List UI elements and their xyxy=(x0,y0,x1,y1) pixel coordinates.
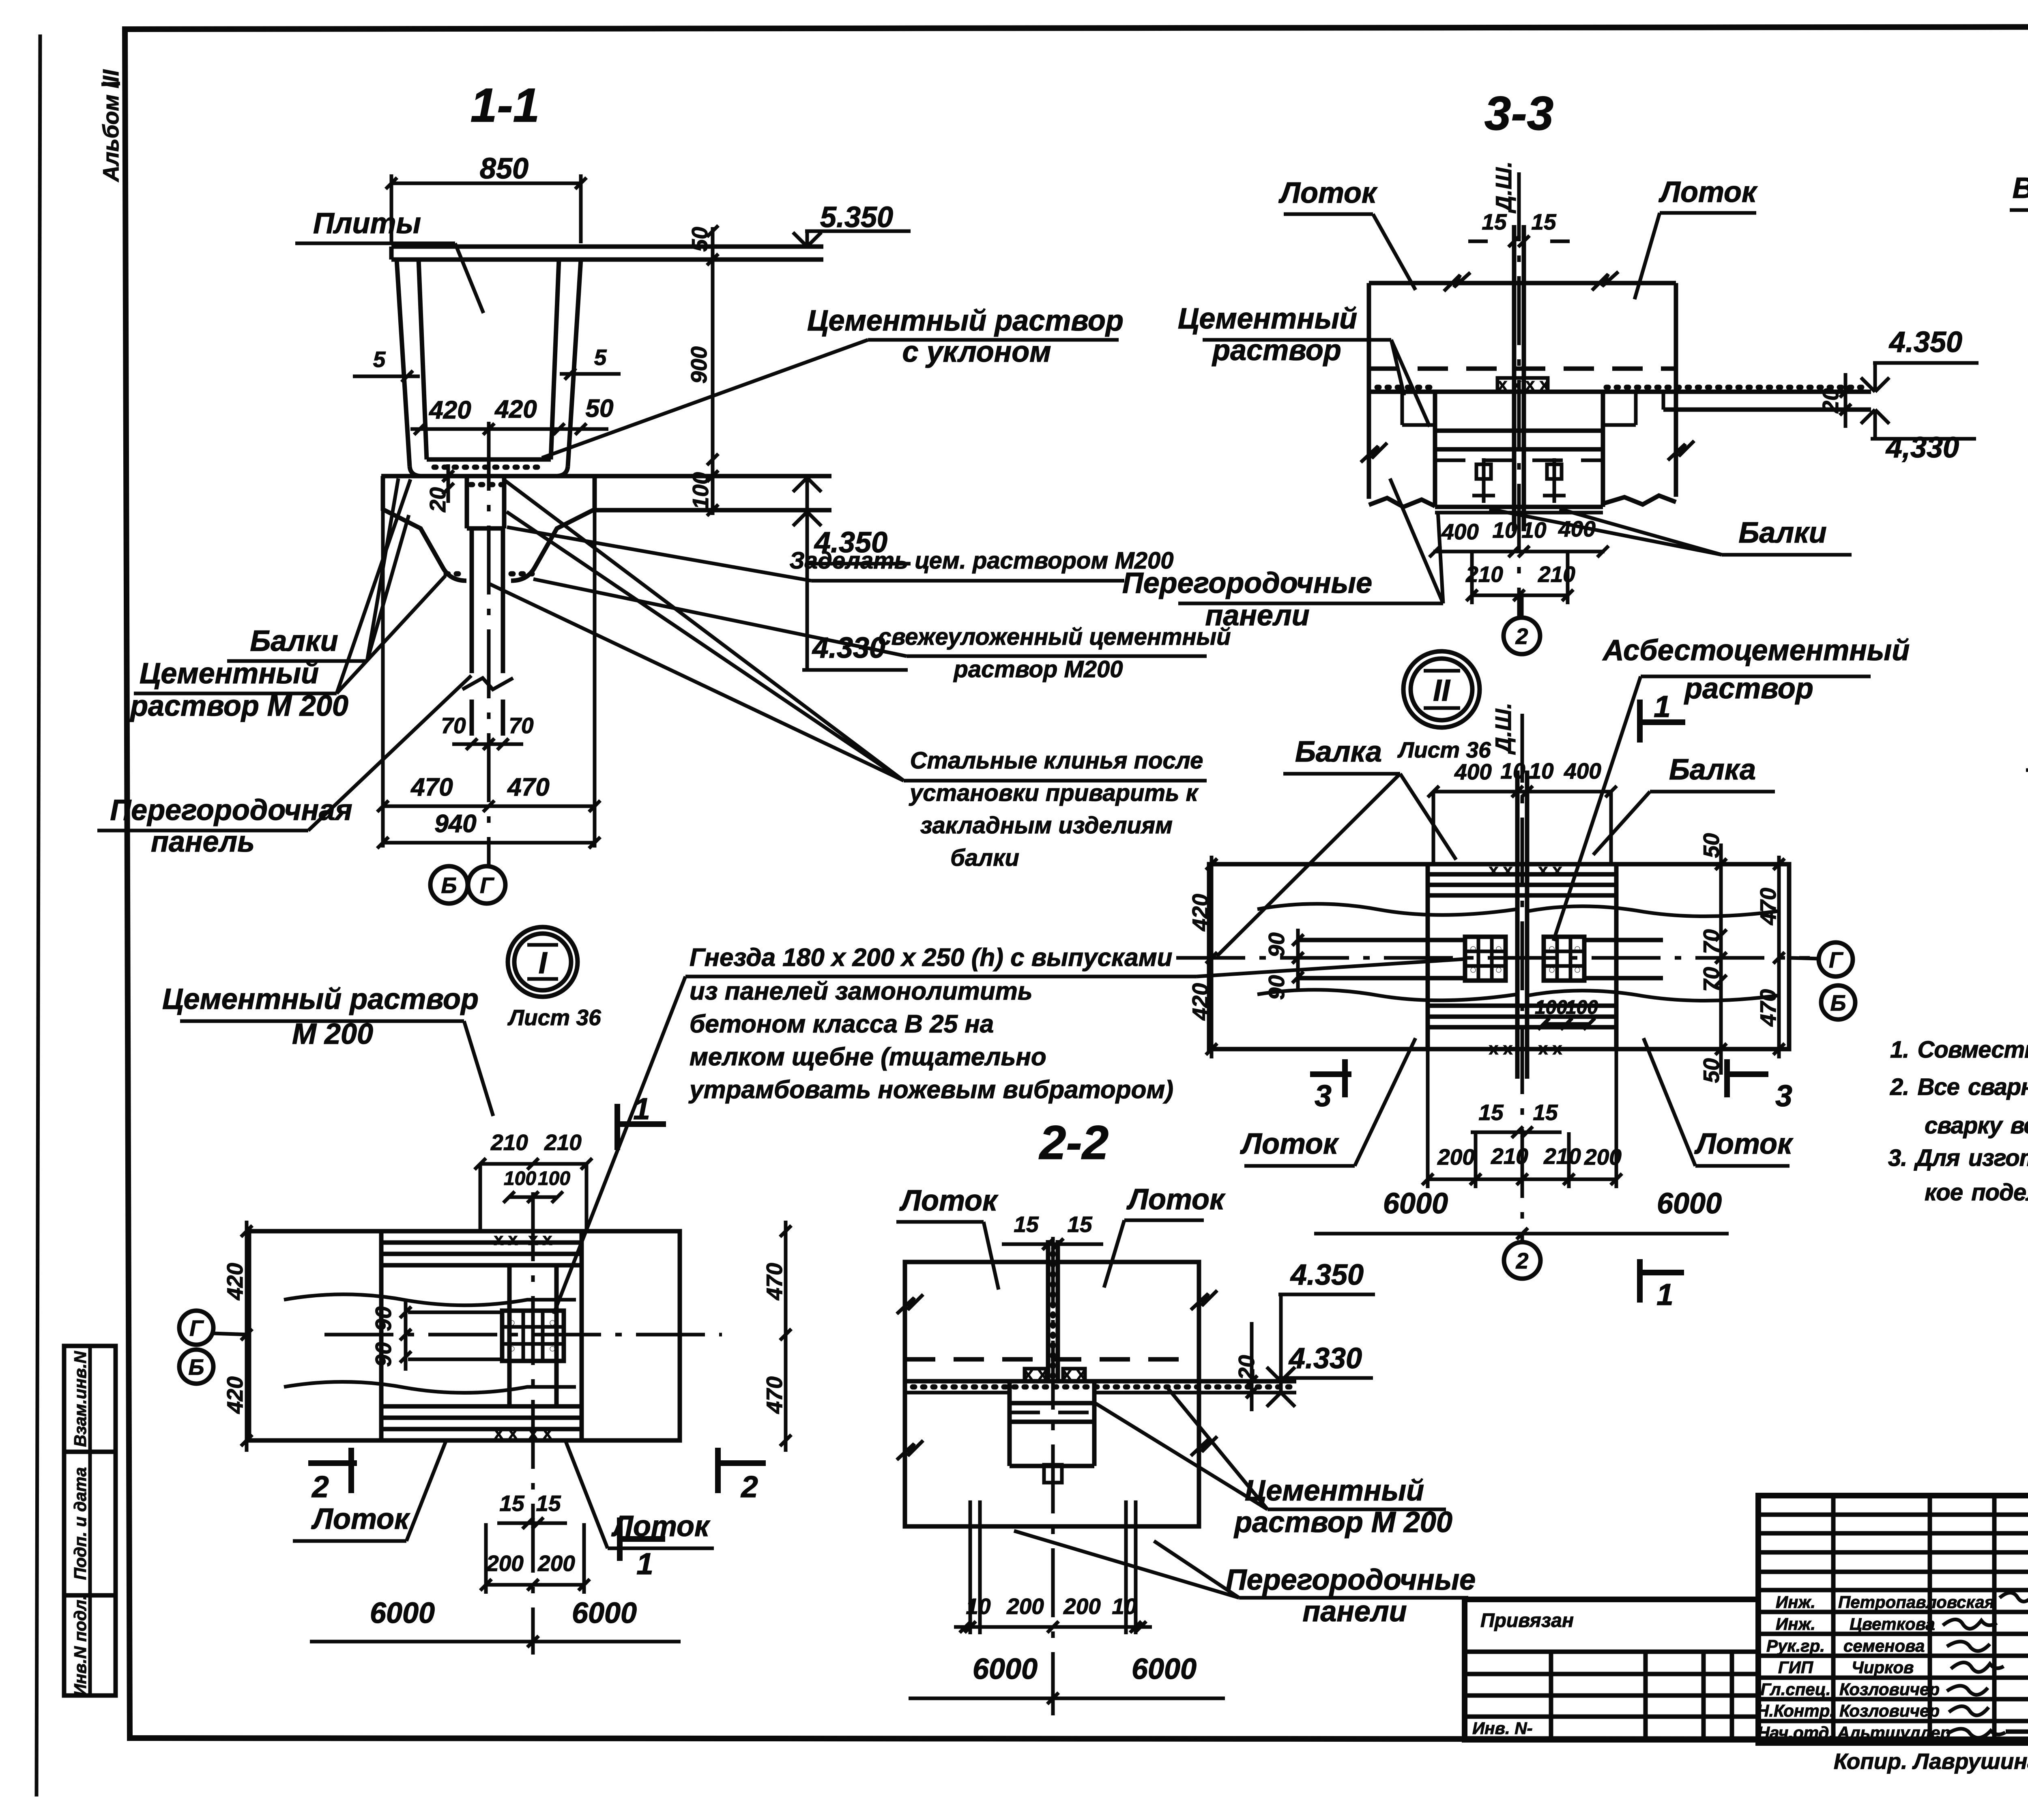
svg-text:400: 400 xyxy=(1564,758,1601,783)
svg-text:90: 90 xyxy=(371,1342,396,1367)
svg-text:15: 15 xyxy=(1482,209,1507,234)
svg-text:Лист 36: Лист 36 xyxy=(507,1005,601,1030)
svg-text:семенова: семенова xyxy=(1843,1636,1925,1655)
svg-text:закладным изделиям: закладным изделиям xyxy=(920,812,1173,839)
svg-text:Перегородочные: Перегородочные xyxy=(1226,1564,1476,1596)
svg-text:Г: Г xyxy=(1829,947,1843,972)
svg-text:4.330: 4.330 xyxy=(812,632,885,664)
svg-text:Д.Ш.: Д.Ш. xyxy=(1491,161,1516,213)
svg-text:420: 420 xyxy=(494,395,537,423)
svg-text:Цементный раствор: Цементный раствор xyxy=(162,983,479,1015)
panel socket xyxy=(465,476,469,528)
svg-text:5: 5 xyxy=(373,347,386,372)
svg-text:5: 5 xyxy=(594,345,607,370)
svg-text:1-1: 1-1 xyxy=(470,79,540,132)
svg-text:1: 1 xyxy=(1654,689,1671,723)
bolt xyxy=(1044,1465,1062,1483)
svg-text:6000: 6000 xyxy=(1383,1187,1448,1220)
svg-text:90: 90 xyxy=(1264,975,1289,1000)
svg-text:210: 210 xyxy=(1538,562,1575,587)
svg-text:ГИП: ГИП xyxy=(1778,1658,1813,1677)
axis circle B xyxy=(430,866,468,904)
socket squares xyxy=(502,1311,564,1361)
svg-text:420: 420 xyxy=(1188,894,1213,931)
svg-text:6000: 6000 xyxy=(370,1597,435,1629)
svg-text:420: 420 xyxy=(1188,983,1213,1021)
svg-text:4.350: 4.350 xyxy=(1888,326,1962,358)
beam end verticals xyxy=(1426,864,1430,1049)
SEC-VIEW-4-4 xyxy=(2026,569,2028,992)
left dims 420 420 xyxy=(1210,856,1214,1058)
detail circle II xyxy=(1403,651,1480,728)
lower band lines xyxy=(1428,1004,1616,1008)
svg-text:Альтшуллер: Альтшуллер xyxy=(1837,1723,1951,1742)
svg-text:утрамбовать ножевым вибратор: утрамбовать ножевым вибратором) xyxy=(688,1076,1173,1104)
svg-text:100: 100 xyxy=(538,1168,570,1189)
svg-text:70: 70 xyxy=(1699,967,1724,992)
section mark 1 top xyxy=(614,1104,620,1150)
svg-text:x x: x x xyxy=(1498,375,1522,394)
svg-text:70: 70 xyxy=(441,713,466,738)
svg-text:Цветкова: Цветкова xyxy=(1850,1614,1935,1633)
svg-text:200: 200 xyxy=(486,1551,524,1576)
detail circle I xyxy=(508,927,578,997)
beam pocket mortar xyxy=(446,571,466,577)
svg-text:x x: x x xyxy=(1062,1364,1086,1383)
horizontal centerline xyxy=(1176,956,1810,960)
svg-text:Асбестоцементный: Асбестоцементный xyxy=(1602,634,1910,667)
svg-text:Козловичер: Козловичер xyxy=(1839,1701,1940,1720)
svg-text:Инв. N-: Инв. N- xyxy=(1472,1719,1533,1738)
center joint verticals xyxy=(507,1265,512,1406)
svg-text:90: 90 xyxy=(371,1306,396,1331)
svg-text:бетоном класса В 25 на: бетоном класса В 25 на xyxy=(690,1010,994,1038)
dim 90 90 xyxy=(404,1300,408,1371)
SEC-TITLEBLOCK xyxy=(1465,1496,2028,1791)
svg-text:10: 10 xyxy=(1492,517,1517,543)
paper left edge line xyxy=(37,34,40,1796)
svg-text:5.350: 5.350 xyxy=(820,201,893,234)
svg-text:1: 1 xyxy=(633,1092,650,1126)
center axis xyxy=(487,422,491,866)
svg-text:4,330: 4,330 xyxy=(1885,431,1959,464)
joint double line xyxy=(1515,770,1520,1079)
svg-text:Лоток: Лоток xyxy=(1658,176,1758,208)
section mark 2 right xyxy=(715,1448,721,1493)
section mark 2 left xyxy=(308,1460,357,1466)
SEC-VIEW-I xyxy=(162,927,1464,1655)
beam top extension line xyxy=(595,508,831,513)
svg-text:Лоток: Лоток xyxy=(1126,1183,1226,1216)
bolt left xyxy=(1482,458,1486,503)
svg-text:Стальные клинья после: Стальные клинья после xyxy=(910,747,1203,774)
section mark 3 left xyxy=(1310,1071,1351,1077)
stamp box vzam xyxy=(64,1346,116,1452)
svg-text:3: 3 xyxy=(1315,1079,1332,1113)
left dims 420 420 xyxy=(245,1221,249,1452)
svg-text:Гл.спец.: Гл.спец. xyxy=(1760,1680,1830,1699)
beam end verticals xyxy=(379,1231,384,1440)
svg-text:2: 2 xyxy=(1516,1248,1529,1273)
upper band lines xyxy=(1428,872,1616,877)
svg-text:x x: x x xyxy=(1489,861,1513,880)
svg-text:15: 15 xyxy=(1533,1100,1558,1125)
svg-text:50: 50 xyxy=(687,227,712,252)
svg-text:6000: 6000 xyxy=(1657,1187,1722,1220)
titleblock outer xyxy=(1758,1496,2028,1743)
svg-text:2: 2 xyxy=(1515,624,1528,649)
svg-text:свежеуложенный цементный: свежеуложенный цементный xyxy=(878,624,1231,650)
axis circles G B xyxy=(179,1311,213,1345)
svg-text:Н.Контр.: Н.Контр. xyxy=(1757,1701,1835,1720)
svg-text:Чирков: Чирков xyxy=(1852,1658,1914,1677)
svg-text:Б: Б xyxy=(1830,990,1846,1015)
SEC-VIEW-II xyxy=(1176,634,1910,1311)
left dims 90 90 xyxy=(1296,929,1300,989)
joint gap lines xyxy=(1512,225,1517,531)
svg-text:420: 420 xyxy=(428,396,471,424)
svg-text:x x: x x xyxy=(1525,375,1549,394)
floor line xyxy=(1369,390,1871,394)
privyazan table xyxy=(1465,1599,1758,1740)
svg-text:Цементный: Цементный xyxy=(1245,1474,1424,1507)
svg-text:200: 200 xyxy=(1006,1594,1044,1619)
SEC-STAMPS left column xyxy=(64,1346,116,1696)
axis circle G xyxy=(468,866,505,904)
svg-text:3. Для изготовления водос: 3. Для изготовления водослива принять ор… xyxy=(1888,1145,2028,1171)
svg-text:15: 15 xyxy=(499,1491,525,1516)
svg-text:Балка: Балка xyxy=(1669,753,1756,786)
svg-text:Цементный: Цементный xyxy=(1178,303,1357,335)
svg-text:3: 3 xyxy=(1775,1079,1792,1113)
svg-text:50: 50 xyxy=(1699,833,1724,858)
svg-text:470: 470 xyxy=(507,773,549,801)
svg-text:Подп. и дата: Подп. и дата xyxy=(71,1467,90,1580)
svg-text:Балки: Балки xyxy=(250,625,338,657)
svg-text:100: 100 xyxy=(1566,997,1598,1018)
right dims 50 70 70 50 xyxy=(1719,843,1723,1075)
svg-text:Лоток: Лоток xyxy=(1278,177,1378,209)
svg-text:кое поделочное стекло по: кое поделочное стекло по ГОСТ 17622-72 *… xyxy=(1925,1179,2028,1206)
beam below xyxy=(1008,1422,1012,1466)
bolt right xyxy=(1553,458,1556,503)
svg-text:100: 100 xyxy=(504,1168,536,1189)
svg-text:200: 200 xyxy=(1063,1594,1101,1619)
svg-text:4.330: 4.330 xyxy=(1288,1342,1362,1375)
svg-text:200: 200 xyxy=(537,1551,575,1576)
dim column right 50 900 xyxy=(711,227,715,515)
svg-text:10: 10 xyxy=(1529,758,1554,783)
tub mortar speckle xyxy=(434,465,546,470)
svg-text:4.350: 4.350 xyxy=(1290,1259,1364,1291)
svg-text:x x: x x xyxy=(1024,1364,1048,1383)
centerlines xyxy=(324,1333,722,1337)
stamp box podp xyxy=(64,1452,116,1595)
svg-text:2-2: 2-2 xyxy=(1039,1116,1109,1170)
svg-text:x x: x x xyxy=(1538,861,1562,880)
svg-text:6000: 6000 xyxy=(973,1653,1038,1685)
centerline xyxy=(1517,172,1521,618)
axis circle 2 bottom xyxy=(1504,1242,1540,1279)
svg-text:2. Все сварные швы h =: 2. Все сварные швы h = 6мм. xyxy=(1890,1074,2028,1100)
svg-text:Г: Г xyxy=(480,873,494,898)
svg-text:Балка: Балка xyxy=(1295,736,1382,768)
svg-text:Балки: Балки xyxy=(1738,517,1826,549)
svg-text:210: 210 xyxy=(1543,1144,1581,1169)
xx boxes xyxy=(1025,1369,1046,1381)
svg-text:200: 200 xyxy=(1437,1144,1475,1170)
svg-text:470: 470 xyxy=(762,1376,787,1414)
gnezdo box xyxy=(1497,378,1548,392)
signatures xyxy=(2000,1593,2028,1602)
svg-text:x x: x x xyxy=(1538,1039,1562,1058)
svg-text:Инж.: Инж. xyxy=(1776,1614,1815,1633)
svg-text:раствор М200: раствор М200 xyxy=(953,656,1123,682)
svg-text:Д.Ш.: Д.Ш. xyxy=(1491,703,1516,755)
svg-text:Нач.отд.: Нач.отд. xyxy=(1757,1723,1834,1742)
dashed water line xyxy=(905,1357,1199,1362)
svg-text:x x: x x xyxy=(494,1423,518,1442)
svg-text:1: 1 xyxy=(1656,1277,1674,1311)
upper walls rect xyxy=(1369,281,1676,285)
svg-text:850: 850 xyxy=(480,152,528,185)
axis circle 2 xyxy=(1520,595,1524,618)
svg-text:470: 470 xyxy=(1755,989,1781,1027)
svg-text:6000: 6000 xyxy=(572,1597,637,1629)
svg-text:Инж.: Инж. xyxy=(1776,1592,1815,1612)
svg-text:2: 2 xyxy=(311,1470,329,1504)
section mark 1 top xyxy=(1637,700,1643,743)
beam body left xyxy=(383,476,466,581)
svg-text:панели: панели xyxy=(1302,1595,1407,1628)
SEC-VIEW-2-2 xyxy=(896,1116,1476,1715)
svg-text:210: 210 xyxy=(544,1130,582,1155)
svg-text:470: 470 xyxy=(762,1263,787,1301)
svg-text:15: 15 xyxy=(536,1491,561,1516)
svg-text:Привязан: Привязан xyxy=(1480,1610,1574,1631)
svg-text:1. Совместно с данным см.: 1. Совместно с данным см. л.л. КЖ-36,40. xyxy=(1890,1037,2028,1063)
beam top in recess xyxy=(1435,429,1603,433)
svg-text:3-3: 3-3 xyxy=(1484,87,1554,140)
svg-text:II: II xyxy=(1433,673,1451,707)
svg-text:400: 400 xyxy=(1441,519,1479,544)
SEC-VIEW-VODOSLIV xyxy=(2010,104,2028,543)
main rect xyxy=(905,1262,1199,1526)
beam body right xyxy=(511,476,595,581)
svg-text:20: 20 xyxy=(1818,388,1843,414)
svg-text:Лоток: Лоток xyxy=(1694,1128,1794,1160)
svg-text:Лоток: Лоток xyxy=(311,1503,410,1535)
upper band lines xyxy=(381,1241,582,1245)
beam center strips xyxy=(1298,938,1465,942)
svg-text:Козловичер: Козловичер xyxy=(1839,1680,1940,1699)
lower band lines xyxy=(381,1404,582,1409)
lower side blocks xyxy=(1369,392,1435,507)
svg-text:Взам.инв.N: Взам.инв.N xyxy=(71,1350,90,1447)
svg-text:Рук.гр.: Рук.гр. xyxy=(1766,1636,1825,1655)
svg-text:210: 210 xyxy=(490,1130,528,1155)
svg-text:x x: x x xyxy=(1489,1039,1513,1058)
thin top rows xyxy=(1758,1513,2028,1517)
svg-text:420: 420 xyxy=(222,1376,247,1414)
svg-text:50: 50 xyxy=(1699,1058,1724,1083)
tub interior bottom xyxy=(427,457,551,462)
svg-text:4.350: 4.350 xyxy=(814,526,887,559)
dash in last row xyxy=(2006,1730,2028,1734)
svg-text:210: 210 xyxy=(1491,1144,1528,1169)
axis circles G B right xyxy=(1789,958,1820,959)
partition panel below xyxy=(470,528,474,673)
name rows xyxy=(1758,1610,2028,1614)
svg-text:420: 420 xyxy=(222,1263,247,1301)
svg-text:90: 90 xyxy=(1264,932,1289,957)
svg-text:15: 15 xyxy=(1478,1100,1504,1125)
recess walls xyxy=(1433,392,1437,507)
svg-text:x x: x x xyxy=(494,1230,518,1249)
stamp divider xyxy=(88,1346,92,1696)
svg-text:70: 70 xyxy=(1699,929,1724,954)
svg-text:15: 15 xyxy=(1531,209,1557,234)
lower datum line xyxy=(1663,408,1871,412)
beam top support line xyxy=(381,474,831,479)
svg-text:из панелей замонолитить: из панелей замонолитить xyxy=(690,977,1033,1005)
svg-text:15: 15 xyxy=(1067,1212,1093,1237)
bar centerline xyxy=(2026,768,2028,772)
joint lines xyxy=(1046,1240,1051,1381)
svg-text:Лоток: Лоток xyxy=(899,1185,999,1217)
svg-text:1: 1 xyxy=(636,1547,653,1581)
socket right xyxy=(1544,937,1584,981)
plan outer rect xyxy=(249,1231,680,1440)
svg-text:Петропавловская: Петропавловская xyxy=(1838,1592,1994,1612)
recess bottom xyxy=(1435,505,1603,509)
svg-text:100: 100 xyxy=(1535,997,1567,1018)
dashed water line xyxy=(1369,367,1676,371)
svg-text:50: 50 xyxy=(586,395,614,423)
svg-text:470: 470 xyxy=(410,773,453,801)
floor lines xyxy=(905,1379,1296,1384)
svg-text:470: 470 xyxy=(1755,888,1781,925)
svg-text:400: 400 xyxy=(1454,759,1492,784)
right dims 470 470 xyxy=(784,1221,788,1452)
svg-text:Инв.N подл.: Инв.N подл. xyxy=(71,1595,90,1696)
svg-text:900: 900 xyxy=(686,346,711,384)
svg-text:Плиты: Плиты xyxy=(313,207,421,240)
plan outer rect xyxy=(1209,864,1789,1049)
svg-text:15: 15 xyxy=(1014,1212,1039,1237)
svg-text:балки: балки xyxy=(950,845,1019,871)
right dims 470 470 xyxy=(1777,856,1781,1058)
section mark 3 right xyxy=(1724,1059,1730,1097)
socket left xyxy=(1465,937,1506,981)
svg-text:Перегородочные: Перегородочные xyxy=(1122,567,1372,599)
svg-text:Цементный: Цементный xyxy=(140,657,319,690)
section mark 1 bottom xyxy=(1637,1259,1643,1303)
svg-text:Гнезда 180 x 200 x 250 (h) с: Гнезда 180 x 200 x 250 (h) с выпусками xyxy=(690,944,1172,972)
SEC-NOTES xyxy=(1888,1037,2028,1206)
signature columns xyxy=(1831,1496,1836,1743)
svg-text:70: 70 xyxy=(509,713,534,738)
svg-text:Г: Г xyxy=(189,1316,204,1341)
svg-text:Б: Б xyxy=(441,873,457,898)
SEC-VIEW-3-3 xyxy=(1122,87,1979,654)
svg-text:установки приварить к: установки приварить к xyxy=(909,780,1199,806)
svg-text:940: 940 xyxy=(434,810,476,838)
section mark 1 bottom xyxy=(617,1517,623,1561)
tub walls xyxy=(397,260,410,466)
svg-text:Водослив: Водослив xyxy=(2013,172,2028,204)
SEC-VIEW-1-1 xyxy=(97,79,1231,904)
svg-text:Цементный раствор: Цементный раствор xyxy=(807,305,1124,337)
svg-text:2: 2 xyxy=(740,1470,758,1504)
stamp box inv xyxy=(64,1595,116,1696)
svg-text:Лоток: Лоток xyxy=(1240,1128,1339,1160)
tub outer bottom xyxy=(410,466,568,476)
recess pocket xyxy=(1008,1381,1012,1422)
svg-text:сварку вести электродами: сварку вести электродами Э-42 ГОСТ 9467-… xyxy=(1925,1112,2028,1139)
svg-text:I: I xyxy=(539,946,548,980)
slab plates xyxy=(391,245,823,249)
svg-text:Б: Б xyxy=(189,1354,204,1380)
svg-text:6000: 6000 xyxy=(1132,1653,1197,1685)
svg-text:Копир. Лаврушина: Копир. Лаврушина xyxy=(1834,1749,2028,1774)
svg-text:мелком щебне (тщательно: мелком щебне (тщательно xyxy=(690,1043,1046,1071)
svg-text:Лист 36: Лист 36 xyxy=(1397,737,1491,762)
